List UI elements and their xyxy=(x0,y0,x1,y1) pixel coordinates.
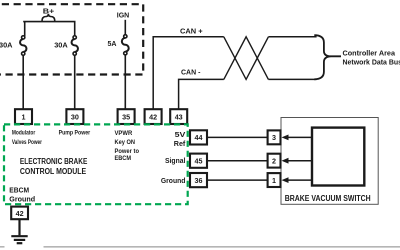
power distribution box (dashed) xyxy=(0,4,143,74)
label: Pump Power xyxy=(59,130,91,136)
label: Signal xyxy=(165,156,185,165)
svg-text:35: 35 xyxy=(122,112,130,121)
twisted pair crossover xyxy=(224,37,269,80)
svg-text:Power to: Power to xyxy=(115,149,140,155)
svg-text:EBCM: EBCM xyxy=(9,185,29,194)
svg-text:Ground: Ground xyxy=(161,176,186,185)
svg-text:5V: 5V xyxy=(175,130,186,139)
svg-text:Valves Power: Valves Power xyxy=(12,140,43,146)
svg-text:EBCM: EBCM xyxy=(115,156,132,162)
net label: Controller Area Network Data Bus xyxy=(343,49,400,67)
svg-text:Controller Area: Controller Area xyxy=(343,49,397,58)
label: BRAKE VACUUM SWITCH xyxy=(285,194,371,203)
wire CAN+ (left segment) xyxy=(153,37,224,109)
pin 36 xyxy=(190,173,207,187)
ground symbol xyxy=(11,236,27,243)
label: VPWR Key ON Power to EBCM xyxy=(115,131,140,162)
value label 5A (F3) xyxy=(108,39,118,48)
wire CAN- (right segment) xyxy=(268,78,316,80)
pin 43 xyxy=(170,109,187,124)
svg-text:CAN +: CAN + xyxy=(180,28,203,35)
svg-text:1: 1 xyxy=(272,176,276,185)
fuse F3 5A xyxy=(122,35,129,55)
pin 42 (EBCM ground) xyxy=(11,207,28,220)
svg-text:ELECTRONIC BRAKE: ELECTRONIC BRAKE xyxy=(20,157,88,166)
wire 36 to 1 xyxy=(208,179,268,181)
fuse F2 30A xyxy=(72,36,78,55)
svg-text:Key ON: Key ON xyxy=(115,140,136,146)
value label 30A (F2) xyxy=(54,41,68,50)
net label CAN + xyxy=(180,28,203,35)
pin 2 (switch) xyxy=(268,154,281,168)
net label CAN - xyxy=(181,70,201,77)
svg-text:36: 36 xyxy=(195,176,203,185)
svg-text:43: 43 xyxy=(175,112,183,121)
wire switch to pin 2 (arrow) xyxy=(282,158,313,164)
svg-text:IGN: IGN xyxy=(117,10,130,19)
svg-text:5A: 5A xyxy=(108,39,118,48)
label: EBCM Ground xyxy=(9,185,35,203)
svg-text:42: 42 xyxy=(149,112,157,121)
value label 30A (F1) xyxy=(0,41,13,50)
wire switch to pin 1 (arrow) xyxy=(282,177,313,183)
brace under B+ xyxy=(42,14,55,22)
svg-text:BRAKE VACUUM SWITCH: BRAKE VACUUM SWITCH xyxy=(285,194,371,203)
pin 1 (switch) xyxy=(268,173,281,187)
svg-text:Modulator: Modulator xyxy=(12,130,36,136)
svg-text:2: 2 xyxy=(272,157,276,166)
wire CAN+ (right segment) xyxy=(268,36,316,38)
pin 44 xyxy=(190,130,207,144)
label: 5V Ref xyxy=(174,130,186,148)
wire switch to pin 3 (arrow) xyxy=(282,135,313,141)
svg-text:44: 44 xyxy=(195,133,203,142)
wire B+ bus xyxy=(23,22,74,37)
wire pin 42 to ground xyxy=(18,220,20,236)
brake vacuum switch enclosure xyxy=(281,118,378,205)
label: Modulator Valves Power xyxy=(12,130,43,146)
pin 42 xyxy=(145,109,162,124)
wire F2 to pin 30 xyxy=(74,55,76,109)
svg-text:45: 45 xyxy=(195,157,203,166)
pin 1 (EBCM connector) xyxy=(15,109,32,124)
svg-text:Ref: Ref xyxy=(174,139,186,148)
svg-text:1: 1 xyxy=(22,112,26,121)
pin 45 xyxy=(190,154,207,168)
svg-text:30A: 30A xyxy=(0,41,13,50)
pin 3 (switch) xyxy=(268,130,281,144)
svg-text:Signal: Signal xyxy=(165,156,185,165)
wire CAN- (left segment) xyxy=(179,79,224,109)
pin 30 xyxy=(66,109,83,124)
page divider line xyxy=(0,246,400,248)
svg-text:3: 3 xyxy=(272,133,276,142)
svg-text:CONTROL MODULE: CONTROL MODULE xyxy=(20,167,87,176)
svg-text:Ground: Ground xyxy=(9,195,35,204)
EBCM module box (green dashed) xyxy=(4,124,188,204)
svg-text:CAN -: CAN - xyxy=(181,70,201,77)
brace: CAN bus xyxy=(314,35,341,79)
wire 45 to 2 xyxy=(208,160,268,162)
brake vacuum switch body xyxy=(312,128,364,186)
svg-text:30A: 30A xyxy=(54,41,68,50)
svg-text:Pump Power: Pump Power xyxy=(59,130,91,136)
wire F1 to pin 1 xyxy=(22,55,24,109)
svg-text:30: 30 xyxy=(71,112,79,121)
pin 35 xyxy=(118,109,135,124)
title: ELECTRONIC BRAKE CONTROL MODULE xyxy=(20,157,88,176)
wire F3 to pin 35 xyxy=(124,55,126,109)
wire 44 to 3 xyxy=(208,136,268,138)
svg-text:Network Data Bus: Network Data Bus xyxy=(343,58,400,67)
node IGN xyxy=(117,10,130,19)
node B+ xyxy=(43,7,55,16)
label: Ground xyxy=(161,176,186,185)
fuse F1 30A xyxy=(20,36,26,55)
wire IGN to F3 xyxy=(124,20,126,35)
svg-text:42: 42 xyxy=(16,209,24,218)
svg-text:VPWR: VPWR xyxy=(115,131,133,137)
